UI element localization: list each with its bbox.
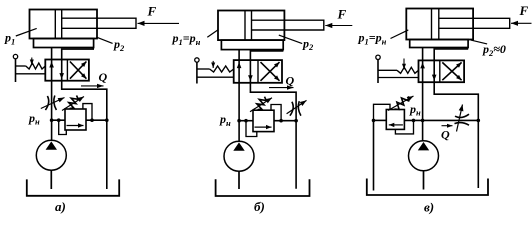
valve crossed-flow arrows (circuit a) bbox=[70, 62, 87, 79]
force F arrow (circuit a) bbox=[138, 22, 180, 24]
relief valve body (circuit v) bbox=[386, 110, 404, 130]
relief drain loop (circuit v) bbox=[374, 104, 391, 120]
pipe plate to valve left (circuit b) bbox=[238, 50, 240, 61]
relief valve spring (circuit a) bbox=[69, 96, 79, 109]
svg-text:Q: Q bbox=[441, 128, 450, 142]
node return line (circuit v) bbox=[477, 119, 481, 123]
relief drain loop (circuit b) bbox=[271, 105, 281, 121]
node pilot tee (circuit a) bbox=[57, 118, 61, 122]
relief valve spring (circuit b) bbox=[257, 97, 267, 110]
valve actuator knob (circuit b) bbox=[195, 58, 199, 62]
force F arrow (circuit v) bbox=[511, 22, 532, 24]
cylinder body (circuit v) bbox=[406, 9, 473, 40]
force F arrow (circuit b) bbox=[325, 25, 352, 27]
tank (circuit a) bbox=[27, 179, 119, 195]
pump (circuit a) bbox=[36, 140, 66, 170]
pipe plate to valve right (circuit b) bbox=[250, 50, 282, 61]
relief valve flow arrow (circuit a) bbox=[67, 125, 84, 127]
pipe plate to valve right (circuit v) bbox=[434, 48, 467, 61]
piston rod (circuit v) bbox=[439, 18, 510, 28]
actuation arrow (circuit v) bbox=[403, 59, 405, 70]
relief valve flow arrow (circuit v) bbox=[389, 124, 403, 126]
pipe plate to valve right (circuit a) bbox=[62, 48, 93, 60]
leader p1 (circuit a) bbox=[16, 28, 37, 36]
pipe plate to valve left (circuit a) bbox=[51, 48, 53, 60]
throttle adjust arrow meter-out (circuit b) bbox=[287, 100, 307, 113]
leader p2 (circuit a) bbox=[96, 37, 112, 43]
relief valve spring (circuit v) bbox=[395, 96, 409, 109]
throttle adjust arrow bypass (circuit v) bbox=[457, 105, 463, 132]
svg-text:Q: Q bbox=[99, 70, 108, 84]
bypass line with throttle (circuit v) bbox=[423, 119, 479, 121]
piston rod (circuit b) bbox=[252, 20, 324, 30]
node relief outlet (circuit a) bbox=[90, 118, 94, 122]
svg-text:б): б) bbox=[254, 199, 265, 214]
valve straight-flow arrows (circuit a) bbox=[51, 60, 53, 81]
relief outlet line (circuit b) bbox=[274, 120, 296, 122]
leader p1 (circuit v) bbox=[391, 30, 409, 39]
relief inlet line (circuit v) bbox=[404, 119, 422, 121]
valve spring (circuit b) bbox=[197, 68, 210, 70]
relief discharge line (circuit v) bbox=[373, 120, 375, 190]
node return line (circuit a) bbox=[105, 118, 109, 122]
piston (circuit a) bbox=[54, 10, 56, 39]
piston (circuit b) bbox=[244, 11, 246, 41]
cylinder mounting plate (circuit v) bbox=[410, 40, 468, 48]
valve spring (circuit v) bbox=[378, 69, 397, 71]
cylinder body (circuit a) bbox=[30, 10, 98, 39]
svg-text:F: F bbox=[519, 3, 529, 18]
relief valve flow arrow (circuit b) bbox=[255, 126, 272, 128]
pump suction line (circuit a) bbox=[50, 170, 52, 189]
piston (circuit v) bbox=[431, 9, 433, 40]
directional valve body (circuit b) bbox=[234, 60, 282, 83]
pilot line (circuit b) bbox=[246, 121, 257, 137]
actuation arrow (circuit a) bbox=[31, 58, 33, 66]
pilot line (circuit v) bbox=[395, 120, 413, 133]
svg-text:p2≈0: p2≈0 bbox=[482, 42, 506, 58]
valve actuator knob (circuit a) bbox=[13, 54, 17, 58]
throttle adjust arrow meter-in (circuit a) bbox=[41, 98, 65, 109]
throttle valve meter-in (circuit a) bbox=[45, 96, 48, 110]
leader p2 (circuit v) bbox=[471, 40, 487, 44]
valve crossed-flow arrows (circuit b) bbox=[261, 62, 280, 81]
svg-text:в): в) bbox=[424, 199, 434, 214]
relief valve body (circuit a) bbox=[65, 109, 86, 130]
node pn (circuit a) bbox=[50, 118, 54, 122]
pilot line (circuit a) bbox=[59, 120, 67, 134]
pump suction line (circuit b) bbox=[238, 171, 240, 189]
relief outlet line (circuit a) bbox=[86, 119, 107, 121]
return line valve to tank (circuit v) bbox=[434, 82, 478, 188]
return line valve to tank (circuit b) bbox=[250, 83, 296, 189]
node relief outlet (circuit b) bbox=[279, 119, 283, 123]
pump (circuit v) bbox=[409, 141, 439, 171]
node pn (circuit b) bbox=[237, 119, 241, 123]
svg-text:F: F bbox=[337, 7, 347, 22]
relief valve adjust arrow (circuit b) bbox=[250, 98, 272, 112]
pump suction line (circuit v) bbox=[423, 171, 425, 190]
valve spring (circuit a) bbox=[16, 65, 26, 67]
piston rod (circuit a) bbox=[62, 18, 136, 28]
throttle valve bypass (circuit v) bbox=[455, 114, 469, 117]
valve crossed-flow arrows (circuit v) bbox=[442, 62, 461, 80]
valve straight-flow arrows (circuit b) bbox=[238, 60, 240, 83]
svg-text:F: F bbox=[147, 4, 157, 19]
svg-text:Q: Q bbox=[286, 74, 295, 88]
pipe plate to valve left (circuit v) bbox=[422, 48, 424, 61]
node pilot tee (circuit v) bbox=[412, 119, 416, 123]
pump (circuit b) bbox=[224, 141, 254, 171]
leader p2 (circuit b) bbox=[279, 35, 302, 44]
tank (circuit b) bbox=[216, 179, 310, 196]
node relief discharge (circuit v) bbox=[372, 119, 376, 123]
relief valve adjust arrow (circuit a) bbox=[62, 97, 84, 111]
flow arrow Q (circuit b) bbox=[269, 87, 294, 89]
leader p1 (circuit b) bbox=[207, 30, 218, 38]
flow arrow Q (circuit v) bbox=[442, 125, 453, 127]
pump pressure line (circuit b) bbox=[238, 83, 240, 141]
line pn to relief (circuit b) bbox=[239, 120, 253, 122]
relief outlet to tank line (circuit v) bbox=[374, 119, 387, 121]
valve straight-flow arrows (circuit v) bbox=[422, 60, 424, 82]
relief valve body (circuit b) bbox=[253, 110, 274, 131]
relief drain loop (circuit a) bbox=[83, 104, 92, 121]
cylinder body (circuit b) bbox=[218, 11, 284, 41]
return line valve to tank (circuit a) bbox=[62, 81, 107, 189]
node pilot tee (circuit b) bbox=[244, 119, 248, 123]
throttle valve meter-out (circuit b) bbox=[290, 102, 293, 116]
line pn to relief (circuit a) bbox=[52, 119, 65, 121]
valve actuator knob (circuit v) bbox=[376, 55, 380, 59]
directional valve body (circuit v) bbox=[419, 60, 465, 82]
svg-text:а): а) bbox=[55, 199, 66, 214]
node bypass tee (circuit v) bbox=[421, 119, 425, 123]
directional valve body (circuit a) bbox=[45, 60, 89, 81]
cylinder mounting plate (circuit a) bbox=[34, 39, 94, 48]
pump pressure line (circuit v) bbox=[422, 82, 424, 141]
cylinder mounting plate (circuit b) bbox=[221, 40, 283, 50]
pump pressure line (circuit a) bbox=[51, 81, 53, 141]
flow arrow Q (circuit a) bbox=[81, 85, 104, 87]
relief valve adjust arrow (circuit v) bbox=[388, 96, 414, 111]
actuation arrow (circuit b) bbox=[212, 61, 214, 68]
tank (circuit v) bbox=[367, 179, 488, 196]
node return line (circuit b) bbox=[294, 119, 298, 123]
